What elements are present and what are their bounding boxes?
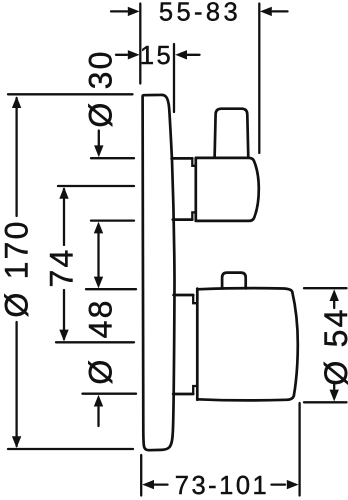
lower sleeve clip bump top bbox=[193, 295, 197, 303]
arrowhead O54 bottom (down) bbox=[330, 390, 339, 402]
lower knob body (O 54) bbox=[197, 288, 297, 400]
arrowhead O30 top (down) bbox=[94, 145, 103, 157]
arrowhead 55-83 right bbox=[260, 7, 272, 16]
dim 55-83 extension line A (plate front) bbox=[139, 4, 141, 84]
upper handle block (O 30) bbox=[196, 158, 259, 221]
dim 74 dimension line upper segment bbox=[63, 189, 65, 245]
svg-text:Ø 170: Ø 170 bbox=[0, 219, 35, 317]
lower sleeve top edge bbox=[174, 294, 194, 297]
dim 15 right arrow tail bbox=[188, 54, 200, 56]
upper sleeve top edge bbox=[172, 157, 193, 160]
dim 74 bottom extension line bbox=[56, 341, 134, 343]
arrowhead O48 top (down) bbox=[94, 277, 103, 289]
lower knob joint / left edge bbox=[196, 289, 199, 400]
arrowhead O48 bottom (up) bbox=[94, 395, 103, 407]
svg-text:Ø 48: Ø 48 bbox=[83, 298, 119, 384]
upper sleeve clip bump bottom bbox=[192, 212, 196, 219]
dim O54 dimension line lower segment bbox=[333, 385, 335, 390]
arrowhead 74 top (up) bbox=[59, 187, 68, 199]
dim 15 left arrow tail bbox=[116, 54, 127, 56]
svg-text:Ø 30: Ø 30 bbox=[83, 49, 119, 127]
dim O54 bottom extension line bbox=[304, 401, 347, 403]
dim 73-101 left arrow tail bbox=[155, 483, 168, 485]
dim 73-101 right arrow tail bbox=[272, 483, 286, 485]
dim O170 dimension line lower segment bbox=[15, 322, 17, 446]
arrowhead 73-101 left bbox=[142, 480, 154, 489]
escutcheon plate (side view, O 170) bbox=[143, 95, 175, 450]
arrowhead O170 bottom bbox=[12, 436, 21, 448]
dim 15 extension line B2 (plate back) bbox=[173, 44, 175, 112]
dim O30 bottom extension line bbox=[91, 219, 134, 221]
upper sleeve clip bump top bbox=[192, 158, 196, 165]
svg-text:15: 15 bbox=[140, 42, 173, 70]
dim O170 bottom extension line bbox=[8, 448, 133, 450]
lower sleeve clip bump bottom bbox=[193, 386, 197, 394]
arrowhead 15 right bbox=[175, 50, 187, 59]
dim O48 bottom extension line bbox=[83, 393, 137, 395]
dim O170 top extension line bbox=[8, 93, 133, 95]
dim O30 top extension line bbox=[91, 157, 134, 159]
dim O30/O48 double arrow shaft bbox=[97, 234, 99, 277]
dim O170 dimension line upper segment bbox=[15, 98, 17, 216]
dim 55-83 extension line B (handle front) bbox=[258, 4, 260, 154]
dim O48 top extension line bbox=[86, 288, 136, 290]
arrowhead O30 bottom (up) bbox=[94, 222, 103, 234]
dim 55-83 right arrow tail bbox=[273, 10, 288, 12]
lower knob stem bbox=[222, 273, 246, 289]
svg-text:Ø 54: Ø 54 bbox=[318, 307, 348, 385]
upper sleeve bottom edge bbox=[173, 218, 193, 221]
dim O48 bottom arrow tail bbox=[97, 407, 99, 426]
upper handle joint line bbox=[194, 158, 197, 221]
svg-text:55-83: 55-83 bbox=[159, 0, 241, 27]
dim 73-101 left extension line bbox=[140, 455, 142, 496]
lower sleeve bottom edge bbox=[173, 393, 193, 396]
arrowhead O170 top bbox=[12, 96, 21, 108]
arrowhead 55-83 left bbox=[128, 7, 140, 16]
dim 73-101 right extension line bbox=[298, 403, 300, 496]
arrowhead 73-101 right bbox=[287, 480, 299, 489]
dim 55-83 left arrow tail bbox=[111, 10, 127, 12]
dim 74 dimension line lower segment bbox=[63, 290, 65, 339]
arrowhead 74 bottom (down) bbox=[59, 330, 68, 342]
arrowhead O54 top (up) bbox=[330, 289, 339, 301]
svg-text:73-101: 73-101 bbox=[175, 472, 269, 500]
dim O54 top extension line bbox=[304, 287, 347, 289]
upper handle stem bbox=[215, 109, 249, 158]
dim O30 upper arrow tail bbox=[98, 131, 100, 147]
arrowhead 15 left bbox=[128, 50, 140, 59]
dim 74 top extension line bbox=[58, 185, 134, 187]
svg-text:74: 74 bbox=[44, 248, 80, 288]
dim O54 dimension line upper segment bbox=[333, 301, 335, 308]
